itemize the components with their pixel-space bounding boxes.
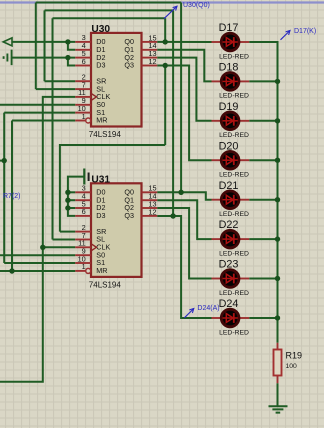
junction CLK net xyxy=(40,245,45,250)
LED D21 anode stub xyxy=(212,199,222,201)
junction S1 net xyxy=(1,158,6,163)
svg-text:MR: MR xyxy=(96,266,107,275)
LED D20 anode stub xyxy=(212,159,222,161)
LED D17 body xyxy=(221,33,239,51)
wire Q3-31 row xyxy=(157,215,173,217)
wire Q3 to D20 xyxy=(157,66,211,161)
pin D0 U31 stub xyxy=(75,191,91,193)
svg-text:D17(K): D17(K) xyxy=(294,28,316,35)
pin Q0 U31 stub xyxy=(142,191,158,193)
wire S1 net vertical xyxy=(3,113,5,263)
ground symbol xyxy=(269,406,288,412)
wire S0-31 row xyxy=(0,254,75,256)
wire net SR30 top row xyxy=(45,9,174,11)
LED D21 diode symbol xyxy=(223,195,238,205)
resistor R19 body xyxy=(274,350,282,376)
wire Q3-31 vertical xyxy=(172,10,174,216)
svg-text:D23: D23 xyxy=(219,259,239,271)
pin SR U30 stub xyxy=(75,80,91,82)
wire cathode bus xyxy=(249,42,277,343)
ground terminal left xyxy=(4,50,12,66)
wire D0 row U30 xyxy=(12,41,75,43)
junction U31 Q3 node xyxy=(170,213,175,218)
junction U31 D0 xyxy=(65,190,70,195)
pin CLK U31 stub xyxy=(75,246,91,248)
svg-text:D17: D17 xyxy=(219,22,239,34)
LED D17 diode symbol xyxy=(223,37,238,47)
svg-text:LED-RED: LED-RED xyxy=(219,250,249,257)
LED D18 cathode stub xyxy=(240,80,250,82)
LED D18 body xyxy=(221,73,239,91)
wire SL30 lead xyxy=(36,88,76,90)
wire Q2 to D19 xyxy=(157,58,211,121)
wire Q2-31 to D23 xyxy=(157,208,211,279)
wire U31 D1 lead xyxy=(68,199,75,201)
svg-text:D19: D19 xyxy=(219,101,239,113)
clock marker U31 xyxy=(91,244,96,251)
LED D20 body xyxy=(221,151,239,169)
wire S1 left stub xyxy=(0,160,4,162)
pin D0 U30 stub xyxy=(75,41,91,43)
svg-text:U30(Q0): U30(Q0) xyxy=(183,2,210,9)
wire D22 cathode xyxy=(249,238,277,240)
wire D21 cathode xyxy=(249,199,277,201)
pin Q2 U30 stub xyxy=(142,57,158,59)
LED D17 anode stub xyxy=(212,41,222,43)
svg-text:LED-RED: LED-RED xyxy=(219,172,249,179)
pin SL U31 stub xyxy=(75,239,91,241)
wire Q0 label vertical xyxy=(180,3,182,193)
svg-text:1: 1 xyxy=(82,262,86,271)
pin MR U30 stub xyxy=(75,120,85,122)
svg-text:MR: MR xyxy=(96,116,107,125)
wire D19 cathode xyxy=(249,120,277,122)
svg-text:LED-RED: LED-RED xyxy=(219,211,249,218)
pin SL U30 stub xyxy=(75,88,91,90)
svg-text:LED-RED: LED-RED xyxy=(219,132,249,139)
LED D23 body xyxy=(221,270,239,288)
wire S1-30 lead xyxy=(4,112,75,114)
junction D2/D3 net xyxy=(65,55,70,60)
pin S1 U31 stub xyxy=(75,262,91,264)
LED D24 cathode stub xyxy=(240,317,250,319)
wire SL30 vertical xyxy=(35,3,37,90)
junction bus D20 xyxy=(275,158,280,163)
pin Q1 U31 stub xyxy=(142,199,158,201)
resistor R19 top stub xyxy=(277,343,279,350)
pin S1 U30 stub xyxy=(75,112,91,114)
net label D17(K) arrow xyxy=(281,31,291,40)
LED D19 cathode stub xyxy=(240,120,250,122)
LED D20 cathode stub xyxy=(240,159,250,161)
wire MR-30 lead xyxy=(12,120,75,122)
LED D23 diode symbol xyxy=(223,274,238,284)
svg-text:Q3: Q3 xyxy=(124,61,134,70)
svg-text:D18: D18 xyxy=(219,62,239,74)
junction bus D24 xyxy=(275,315,280,320)
pin Q0 U30 stub xyxy=(142,41,158,43)
LED D24 anode stub xyxy=(212,317,222,319)
svg-text:LED-RED: LED-RED xyxy=(219,290,249,297)
junction U31 D1 xyxy=(65,198,70,203)
wire D18 cathode xyxy=(249,80,277,82)
LED D19 diode symbol xyxy=(223,116,238,126)
LED D21 cathode stub xyxy=(240,199,250,201)
pin S0 U31 stub xyxy=(75,254,91,256)
wire net SL30 top row xyxy=(36,2,181,4)
wire Q3-31 to D24 xyxy=(173,216,211,318)
IC body U30 xyxy=(91,33,142,127)
LED D22 anode stub xyxy=(212,238,222,240)
wire U31 CLK lead xyxy=(43,246,76,248)
svg-text:R19: R19 xyxy=(286,350,303,360)
svg-text:D21: D21 xyxy=(219,180,239,192)
wire Q3 feedback row xyxy=(60,145,165,232)
LED D23 anode stub xyxy=(212,278,222,280)
svg-text:U31: U31 xyxy=(91,174,110,185)
pin SR U31 stub xyxy=(75,231,91,233)
svg-text:D24: D24 xyxy=(219,298,239,310)
svg-text:LED-RED: LED-RED xyxy=(219,93,249,100)
wire Q0 to D17 xyxy=(157,41,211,43)
inversion bubble MR U31 xyxy=(86,268,91,273)
svg-text:D3: D3 xyxy=(96,61,105,70)
junction Q3-30 node xyxy=(163,63,168,68)
wire R19 to ground xyxy=(277,383,279,405)
pin D2 U30 stub xyxy=(75,57,91,59)
wire Q0-31 to D21 xyxy=(181,192,211,199)
wire U31 D2 lead xyxy=(68,207,75,209)
clock marker U30 xyxy=(91,93,96,100)
LED D18 diode symbol xyxy=(223,77,238,87)
sheet border line xyxy=(0,1,324,3)
svg-text:D3: D3 xyxy=(96,211,105,220)
input terminal arrow xyxy=(3,38,12,46)
junction MR net xyxy=(9,268,14,273)
pin S0 U30 stub xyxy=(75,104,91,106)
junction bus D21 xyxy=(275,197,280,202)
junction D0/D1 net xyxy=(65,39,70,44)
net label D24(A) arrow xyxy=(184,309,193,318)
pin Q3 U30 stub xyxy=(142,65,158,67)
pin CLK U30 stub xyxy=(75,96,91,98)
wire SR30 vertical xyxy=(44,10,46,81)
wire U31 SL lead xyxy=(53,239,76,241)
wire net Q0 top row xyxy=(53,17,166,19)
pin Q3 U31 stub xyxy=(142,215,158,217)
LED D19 anode stub xyxy=(212,120,222,122)
wire S1-31 lead xyxy=(4,262,75,264)
wire D2-D3 jog U30 xyxy=(68,58,75,66)
resistor R19 bottom stub xyxy=(277,376,279,384)
wire U31 D0 lead xyxy=(68,191,75,193)
pin Q1 U30 stub xyxy=(142,49,158,51)
pin D1 U31 stub xyxy=(75,199,91,201)
LED D24 body xyxy=(221,309,239,327)
svg-text:100: 100 xyxy=(286,363,298,370)
svg-text:12: 12 xyxy=(149,57,157,66)
junction U31 D2 xyxy=(65,205,70,210)
svg-text:74LS194: 74LS194 xyxy=(89,130,122,139)
LED D20 diode symbol xyxy=(223,155,238,165)
IC body U31 xyxy=(91,183,142,277)
svg-text:U30: U30 xyxy=(91,24,110,35)
junction bus D19 xyxy=(275,118,280,123)
wire Q1-31 to D22 xyxy=(157,200,211,239)
svg-text:74LS194: 74LS194 xyxy=(89,280,122,289)
junction bus D23 xyxy=(275,276,280,281)
wire CLK net xyxy=(0,97,75,382)
wire D0-D1 jog U30 xyxy=(68,42,75,50)
pin D2 U31 stub xyxy=(75,207,91,209)
wire Q1 to D18 xyxy=(157,50,211,82)
wire MR net vertical xyxy=(11,121,13,272)
net label U30(Q0) arrow xyxy=(164,6,177,19)
LED D19 body xyxy=(221,112,239,130)
pin D3 U30 stub xyxy=(75,65,91,67)
LED D18 anode stub xyxy=(212,80,222,82)
wire Q0-30 vertical xyxy=(164,18,166,42)
pin D1 U30 stub xyxy=(75,49,91,51)
junction bus D22 xyxy=(275,236,280,241)
wire D2 row U30 xyxy=(12,57,75,59)
wire U31 SR lead xyxy=(60,231,75,233)
junction U31 Q0 node xyxy=(178,190,183,195)
svg-text:R7(2): R7(2) xyxy=(3,193,21,200)
svg-text:6: 6 xyxy=(82,57,86,66)
LED D24 diode symbol xyxy=(223,313,238,323)
wire D23 cathode xyxy=(249,278,277,280)
svg-text:6: 6 xyxy=(82,207,86,216)
svg-text:LED-RED: LED-RED xyxy=(219,53,249,60)
svg-text:D22: D22 xyxy=(219,219,239,231)
LED D22 diode symbol xyxy=(223,234,238,244)
svg-text:Q3: Q3 xyxy=(124,211,134,220)
svg-text:LED-RED: LED-RED xyxy=(219,329,249,336)
LED D17 cathode stub xyxy=(240,41,250,43)
LED D22 body xyxy=(221,230,239,248)
wire Q0-31 row xyxy=(157,191,181,193)
svg-text:1: 1 xyxy=(82,112,86,121)
power terminal label xyxy=(88,173,90,182)
inversion bubble MR U30 xyxy=(86,118,91,123)
pin D3 U31 stub xyxy=(75,215,91,217)
wire D20 cathode xyxy=(249,159,277,161)
wire Q0-SL31 vertical xyxy=(52,18,54,239)
wire Q3-30 vertical xyxy=(164,66,166,146)
wire D24 cathode xyxy=(249,317,277,319)
wire U31 D terminal lead xyxy=(68,177,84,216)
LED D21 body xyxy=(221,191,239,209)
LED D23 cathode stub xyxy=(240,278,250,280)
wire MR-31 row xyxy=(0,270,75,272)
svg-text:D20: D20 xyxy=(219,140,239,152)
junction bus D18 xyxy=(275,79,280,84)
wire S0-30 row xyxy=(0,104,75,106)
pin MR U31 stub xyxy=(75,270,85,272)
svg-text:12: 12 xyxy=(149,207,157,216)
wire SR30 lead xyxy=(45,80,76,82)
pin Q2 U31 stub xyxy=(142,207,158,209)
LED D22 cathode stub xyxy=(240,238,250,240)
junction Q0-30 node xyxy=(163,39,168,44)
power terminal bar U31 xyxy=(83,169,85,185)
svg-text:D24(A): D24(A) xyxy=(197,305,219,312)
